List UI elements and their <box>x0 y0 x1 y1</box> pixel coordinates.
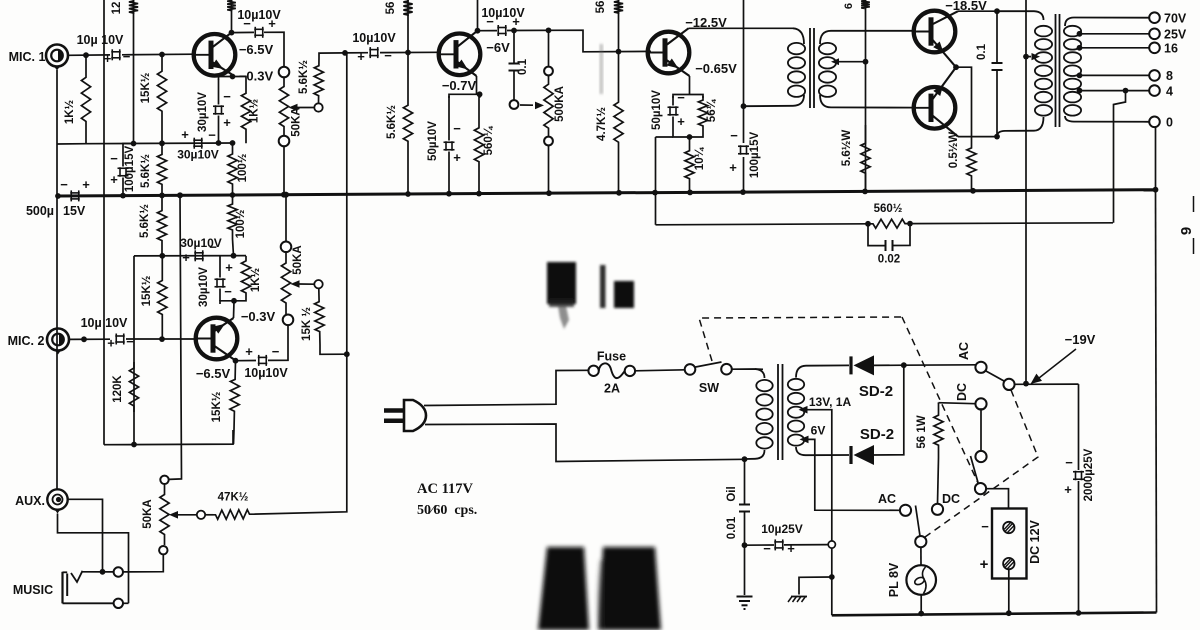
capacitor 100u15V (A3 decoupling) <box>738 145 749 155</box>
svg-text:SD-2: SD-2 <box>860 426 894 443</box>
polarity + Q3 in <box>357 49 365 64</box>
resistor 5K half? (Q2 emitter leg label) <box>0 0 1 1</box>
transformer T2 core <box>1056 14 1060 127</box>
polarity + MIC2 out <box>245 344 253 359</box>
resistor 56 1W (DC dropper) <box>934 403 943 459</box>
svg-text:50µ10V: 50µ10V <box>651 90 663 130</box>
svg-text:0.02: 0.02 <box>878 254 900 266</box>
svg-text:+: + <box>182 250 190 265</box>
svg-text:9: 9 <box>1178 227 1195 235</box>
svg-text:50⁄60 cps.: 50⁄60 cps. <box>417 503 477 518</box>
resistor 15K half (Q1 base to fb net) <box>157 55 166 144</box>
svg-text:−: − <box>208 128 216 143</box>
wire 100u cap leads <box>123 144 134 196</box>
wiper arrow pot2 <box>291 280 315 288</box>
polarity + 50u d <box>677 114 685 129</box>
switch SW contact right <box>721 364 732 375</box>
wire T1 primary top lead <box>793 28 804 44</box>
wire mix node to Q3 cap <box>345 52 368 54</box>
svg-text:−6.5V: −6.5V <box>196 366 231 381</box>
label -0.7V <box>442 78 477 93</box>
wire emitter net y143 <box>86 142 233 145</box>
T3 6V tap arrow <box>800 436 809 444</box>
capacitor 0.1 output <box>992 63 1003 70</box>
smudge blob mid-left <box>547 262 576 329</box>
node 0.1 top <box>994 8 1000 14</box>
label 500u part1 <box>26 204 54 218</box>
wire switch to T3 <box>732 368 763 370</box>
wire Q3 out to step right <box>507 30 651 52</box>
label 50u10V Q3 <box>427 121 439 161</box>
transformer T1 core <box>810 28 814 108</box>
svg-text:−0.65V: −0.65V <box>695 61 737 76</box>
label 56 1W <box>916 415 928 448</box>
capacitor 50u10V (driver bypass) <box>668 106 679 116</box>
wire mic ground through bus <box>56 329 58 489</box>
wire 0.02 frame <box>868 224 910 246</box>
polarity - 2000u <box>1065 455 1073 470</box>
arrow -19V <box>1031 349 1077 384</box>
polarity + 30u v2 <box>225 260 233 275</box>
svg-text:+: + <box>82 177 90 192</box>
svg-text:DC: DC <box>955 383 969 401</box>
resistor cropped at top (Q1 emitter) <box>227 0 236 11</box>
svg-text:+: + <box>223 115 231 130</box>
transistor Q3 (2nd stage) <box>438 31 480 76</box>
dashed linkage diagonal 2 <box>925 390 1038 537</box>
text Fuse <box>597 350 626 364</box>
switch upper AC contact <box>975 362 986 373</box>
potentiometer 50KA 2 body <box>281 251 290 315</box>
wire tone cap leads <box>513 30 515 100</box>
resistor 560 (cropped top, Q3 bias upper) <box>403 0 412 16</box>
wire plug lower <box>425 424 745 462</box>
label 10quarter <box>694 146 706 170</box>
transistor Q2 (MIC2 amp) <box>195 318 237 361</box>
wire 2000u line <box>1078 384 1080 613</box>
capacitor 30u10V (series in y143 net) <box>193 138 203 149</box>
svg-text:−: − <box>209 240 217 255</box>
label 4 <box>1166 85 1173 99</box>
resistor 1K half (Q1 collector) <box>241 79 250 143</box>
wire x743 vertical <box>743 0 745 192</box>
wire T2 primary bottom lead <box>997 117 1044 137</box>
label 15K half MIC2 <box>141 275 153 306</box>
transistor Q1 (MIC1 amp) <box>193 33 235 76</box>
svg-text:16: 16 <box>1164 42 1178 56</box>
node Q3 emitter junction <box>477 91 483 97</box>
svg-text:−: − <box>123 49 131 64</box>
node AUX/MUSIC junction <box>100 569 106 575</box>
label 120K <box>112 375 124 403</box>
switch upper blade <box>986 371 1005 382</box>
node lamp bus <box>918 611 924 617</box>
wire music upper to pot bottom <box>123 555 163 572</box>
svg-text:560½: 560½ <box>874 203 903 215</box>
node mix vertical junction <box>344 351 350 357</box>
svg-text:5.6½W: 5.6½W <box>841 130 853 167</box>
label 4.7K half <box>596 107 608 141</box>
resistor 1K half (MIC1 input load) <box>81 55 90 143</box>
svg-text:−: − <box>60 177 68 192</box>
wire x180 bus to volume pot <box>169 195 182 479</box>
label 56 cropped A3 <box>595 1 607 14</box>
node mix node <box>342 50 348 56</box>
label 5.6halfW <box>841 130 853 167</box>
svg-text:−: − <box>243 16 251 31</box>
text AUX. label <box>15 494 45 508</box>
wire upper DC down <box>980 408 982 451</box>
label 6 cropped <box>843 3 855 9</box>
potentiometer 50KA (MIC1 level) top terminal <box>279 67 290 78</box>
svg-text:4: 4 <box>1166 85 1173 99</box>
wire tap 4 <box>1080 90 1150 92</box>
wire collector node split <box>219 77 247 80</box>
node bus junction x743 <box>740 189 746 195</box>
wire Q6 emitter to join <box>0 0 1 1</box>
wire T2 secondary bottom lead <box>1065 116 1149 122</box>
svg-text:−6.5V: −6.5V <box>239 42 274 57</box>
wire tap 16 <box>1080 47 1150 49</box>
polarity + 10u25 <box>787 541 795 556</box>
volume pot 50KA body <box>160 484 169 545</box>
polarity - MIC1 cap <box>123 49 131 64</box>
wire y444 net <box>106 430 234 445</box>
svg-text:AUX.: AUX. <box>15 494 45 508</box>
polarity - battery <box>981 519 989 534</box>
node y255 at cap junction <box>231 253 237 259</box>
node Q3 collector <box>475 28 481 34</box>
node T2 tap 4 <box>1077 88 1083 94</box>
text SW <box>699 381 719 395</box>
node y143 at 15K <box>159 140 165 146</box>
label 0.5halfW <box>948 132 960 169</box>
label 500KA <box>554 86 566 122</box>
label -0.3V Q1 collector <box>239 69 274 84</box>
svg-text:−: − <box>272 344 280 359</box>
polarity + MIC1 cap <box>104 51 112 66</box>
svg-text:+: + <box>245 344 253 359</box>
svg-text:30µ10V: 30µ10V <box>197 92 209 132</box>
svg-text:500KA: 500KA <box>554 86 566 122</box>
svg-text:0.1: 0.1 <box>517 58 529 75</box>
earth ground symbol <box>737 597 753 610</box>
svg-text:8: 8 <box>1166 69 1173 83</box>
wire bus right end down <box>1156 190 1157 613</box>
node T1 tap junction <box>863 59 869 65</box>
wire 56 bottom to DC2 <box>938 458 939 504</box>
node bus junction x549 <box>546 190 552 196</box>
polarity + 30u vert <box>223 115 231 130</box>
wire 100half to node <box>233 239 234 256</box>
polarity - 30u vert <box>223 89 231 104</box>
wire cap to pot1 top <box>264 32 284 67</box>
transformer T2 secondary coil <box>1064 26 1081 116</box>
wire 13V tap down <box>803 410 832 541</box>
switch lower blade <box>916 506 921 537</box>
transistor Q4 driver <box>647 28 689 76</box>
svg-text:10µ10V: 10µ10V <box>244 366 288 380</box>
label 56quarter <box>706 98 718 122</box>
resistor 47K half (aux mix) <box>213 510 252 520</box>
wire cap to Q1 base <box>122 53 194 56</box>
AC plug prong upper <box>384 408 404 413</box>
potentiometer 500KA body <box>544 76 553 138</box>
capacitor 10u10V (MIC2 out coupling) <box>258 355 268 366</box>
wire tap 8 <box>1080 74 1150 76</box>
svg-text:−: − <box>126 334 134 349</box>
capacitor 10u10V (MIC2 coupling) <box>115 334 125 345</box>
terminal speaker 70V <box>1149 12 1160 23</box>
svg-text:−: − <box>1065 455 1073 470</box>
svg-text:1K½: 1K½ <box>250 267 262 292</box>
terminal speaker 4 <box>1149 85 1160 96</box>
svg-text:−: − <box>453 121 461 136</box>
svg-text:+: + <box>787 541 795 556</box>
wire 500KA bottom to bus <box>548 145 550 193</box>
node T2 tap junction <box>1023 54 1029 60</box>
wire 30u v2 leads <box>219 256 221 301</box>
node output emitters join <box>953 64 959 70</box>
node y143 at 120K line <box>131 141 137 147</box>
svg-text:6V: 6V <box>811 424 826 438</box>
svg-text:Oil: Oil <box>726 486 738 501</box>
node pot1 bus junction <box>281 192 287 198</box>
capacitor 500u15V (rail series) <box>70 190 80 201</box>
wire T3 sec bottom lead <box>796 447 849 455</box>
node tone cap signal <box>511 28 517 34</box>
wire T2 secondary top lead <box>1065 18 1149 27</box>
svg-text:AC: AC <box>957 342 971 360</box>
node y255 at 5.6K <box>159 253 165 259</box>
label SD-2 lower <box>860 426 894 443</box>
wire cap to Q3 base <box>380 51 439 53</box>
svg-text:MIC. 1: MIC. 1 <box>9 50 46 64</box>
terminal speaker 8 <box>1149 70 1160 81</box>
battery terminal lower <box>1003 558 1014 569</box>
label 100half <box>237 153 249 182</box>
node bus junction x408 <box>405 191 411 197</box>
transformer T1 secondary coil <box>819 43 836 97</box>
wire cap to Q2 base <box>126 338 196 340</box>
polarity - 30u horiz <box>208 128 216 143</box>
wire 10u25V left <box>745 544 775 546</box>
label 47K half <box>218 492 249 504</box>
label 56 cropped A2 <box>385 2 397 15</box>
svg-text:−19V: −19V <box>1065 332 1096 347</box>
svg-text:50KA: 50KA <box>291 107 303 136</box>
node bus left end <box>55 193 61 199</box>
label 560quarter <box>483 125 495 155</box>
potentiometer 50KA body <box>279 77 288 137</box>
capacitor 0.01 Oil <box>739 505 750 512</box>
wire 0.01 to earth ground <box>744 545 746 595</box>
svg-text:120K: 120K <box>112 375 124 403</box>
capacitor 10u10V (MIC1 out coupling) <box>254 27 264 38</box>
wire emitter split frame <box>449 94 480 98</box>
node pot2 bus junction <box>283 192 289 198</box>
label -6.5V Q1 emitter <box>239 42 274 57</box>
node y143 right end <box>230 140 236 146</box>
wire T1 tap to x865 <box>838 61 866 63</box>
node MIC2 tip junction <box>81 336 87 342</box>
T3 13V tap arrow <box>799 406 808 414</box>
polarity + 500u <box>82 177 90 192</box>
label 0.1 A4 <box>976 43 988 60</box>
label PL 8V <box>887 562 901 597</box>
polarity - 10u25 <box>763 541 771 556</box>
polarity - 500u <box>60 177 68 192</box>
svg-text:560¼: 560¼ <box>483 125 495 155</box>
svg-text:−0.3V: −0.3V <box>241 309 276 324</box>
polarity - 30u v2 <box>224 284 232 299</box>
wire 50u d leads <box>672 96 674 134</box>
label DC lower <box>942 492 960 506</box>
node x180 bus junction <box>177 192 183 198</box>
switch SW contact left <box>685 364 696 375</box>
label 12.. cropped <box>111 2 123 15</box>
resistor 5.6K half (MIC1 emitter to bus) <box>157 143 166 195</box>
svg-text:10¼: 10¼ <box>694 146 706 170</box>
wire collector RC frame <box>220 298 246 304</box>
wire 0.1 leads <box>996 11 998 136</box>
transformer T3 secondary coil <box>788 379 804 446</box>
node bus junction x123 <box>120 193 126 199</box>
capacitor 30u10V (series y255) <box>194 250 204 261</box>
wire Q2 emitter to out <box>235 361 237 364</box>
wire 120K feedback line <box>133 256 135 445</box>
label 560half fb <box>874 203 903 215</box>
capacitor 10u10V (MIC1 coupling) <box>111 49 121 60</box>
wire rectifier to AC contact <box>904 364 976 366</box>
label 5.6K half <box>140 154 152 188</box>
svg-text:−: − <box>486 14 494 29</box>
switch pole2 common <box>975 483 986 494</box>
resistor 5.6K half (bus to y255) <box>157 195 166 255</box>
polarity + battery <box>980 556 989 573</box>
svg-text:30µ10V: 30µ10V <box>198 267 210 307</box>
resistor 100half (Q1 collector load to bus) <box>228 143 237 195</box>
label 100half MIC2 <box>235 209 247 238</box>
node T3 bottom junction <box>742 456 748 462</box>
node tap4 feedback junction <box>1123 88 1129 94</box>
polarity + 30u horiz <box>181 127 189 142</box>
svg-text:+: + <box>104 51 112 66</box>
svg-text:−6V: −6V <box>486 40 510 55</box>
switch upper common <box>1003 379 1014 390</box>
capacitor 30u10V (Q1 collector bypass) <box>213 105 224 115</box>
wire Q2 collector up <box>233 301 236 318</box>
resistor 10quarter (driver emitter to bus) <box>685 137 694 192</box>
svg-text:5.6K½: 5.6K½ <box>140 154 152 188</box>
wire 120K line MIC1 from top <box>133 0 135 144</box>
label -19V <box>1065 332 1096 347</box>
wire driver emitter down <box>689 76 691 95</box>
wire feedback takeoff <box>1114 91 1126 223</box>
svg-text:15V: 15V <box>63 204 86 218</box>
svg-text:DC: DC <box>942 492 960 506</box>
label 25V <box>1164 28 1187 42</box>
label SD-2 upper <box>859 383 893 400</box>
terminal MUSIC switch upper <box>114 567 123 576</box>
svg-text:15K½: 15K½ <box>140 72 152 103</box>
wire 1K bottom to ground line <box>57 143 86 145</box>
label 16 <box>1164 42 1178 56</box>
switch SW blade <box>696 362 722 367</box>
svg-text:6: 6 <box>843 3 855 9</box>
volume wiper arrow <box>169 511 197 519</box>
svg-text:−: − <box>763 541 771 556</box>
label -6V <box>486 40 510 55</box>
fuse F1 <box>588 363 635 378</box>
transformer T2 primary coil <box>1035 26 1052 116</box>
transformer T3 core <box>778 364 783 460</box>
node 0.01 junction <box>742 542 748 548</box>
text MUSIC label <box>13 583 53 597</box>
wire 0 terminal to bus <box>1155 127 1157 190</box>
T2 primary tap arrow <box>1032 53 1041 60</box>
wire 15K to y444 <box>233 430 236 444</box>
svg-text:50KA: 50KA <box>142 499 154 528</box>
label -12.5V <box>685 15 727 30</box>
label 1K half <box>64 99 76 124</box>
label DC rotated upper <box>955 383 969 401</box>
wire wiper to 47K <box>205 514 213 516</box>
wire x104 long vertical <box>104 0 106 445</box>
svg-text:15K½: 15K½ <box>141 275 153 306</box>
pilot lamp PL 8V <box>906 565 936 595</box>
wire x865 vertical <box>865 0 867 191</box>
volume pot bottom terminal <box>159 546 167 554</box>
polarity - Q3 out <box>486 14 494 29</box>
connector J4 MUSIC jack body <box>63 572 114 604</box>
wire pole2 to battery <box>986 489 1009 509</box>
terminal speaker 16 <box>1149 43 1160 54</box>
node T2 tap 25V <box>1077 31 1083 37</box>
polarity - 50u d <box>677 90 685 105</box>
polarity + Q3 out <box>512 14 520 29</box>
svg-text:5.6K½: 5.6K½ <box>139 204 151 238</box>
svg-text:47K½: 47K½ <box>218 492 249 504</box>
svg-text:56: 56 <box>385 2 397 15</box>
wire T2 tap to x1026 <box>1026 56 1031 58</box>
polarity - 100u A3 <box>730 128 738 143</box>
resistor 15K half (Q2 emitter down) <box>230 361 240 430</box>
polarity - 50u Q3 <box>453 121 461 136</box>
node bus junction x655 <box>652 190 658 196</box>
transistor Q5 output upper <box>913 11 958 67</box>
node MIC1 tip junction <box>83 52 89 58</box>
wire AUX sleeve down and right <box>58 514 129 604</box>
text AC 117V <box>417 481 474 497</box>
label 0.1 tone <box>517 58 529 75</box>
polarity + 50u Q3 <box>453 150 461 165</box>
resistor 5.6 halfW (T1 tap to bus) <box>861 125 870 191</box>
svg-text:−: − <box>224 284 232 299</box>
label 50KA volume <box>142 499 154 528</box>
wire Q1 collector to RC pair <box>231 75 234 80</box>
connector J1 MIC.1 jack <box>46 45 68 71</box>
wire Q1 emitter up to out node <box>231 0 233 33</box>
capacitor 0.1 (tone) <box>509 64 520 71</box>
resistor 100half (bus to Q2 node) <box>228 195 237 239</box>
wire pot1 5.6K top to mix wire <box>319 53 345 58</box>
smudge big bottom right part <box>597 547 661 630</box>
svg-text:5.6K½: 5.6K½ <box>298 60 310 94</box>
node driver emitter RC bottom <box>687 134 693 140</box>
svg-text:100µ15V: 100µ15V <box>749 132 761 179</box>
wire battery to bottom bus <box>1008 569 1010 613</box>
